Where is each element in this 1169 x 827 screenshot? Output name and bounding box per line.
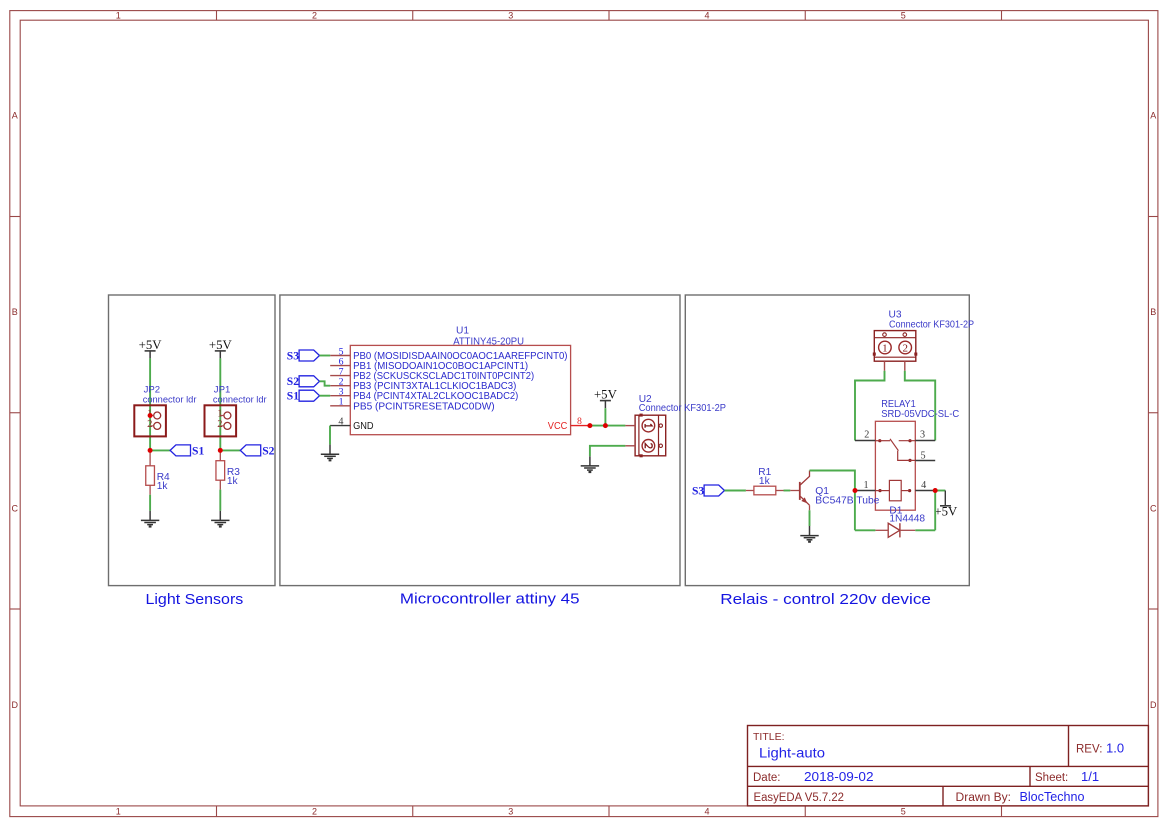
svg-text:+5V: +5V	[594, 387, 618, 401]
svg-text:Light-auto: Light-auto	[759, 745, 825, 761]
svg-text:connector ldr: connector ldr	[143, 394, 197, 404]
svg-text:Drawn By:: Drawn By:	[956, 792, 1012, 804]
svg-text:3: 3	[508, 11, 513, 21]
svg-text:Date:: Date:	[753, 772, 781, 784]
svg-text:1k: 1k	[759, 476, 771, 487]
svg-text:GND: GND	[353, 421, 374, 432]
svg-text:1: 1	[339, 397, 344, 408]
svg-text:S1: S1	[192, 445, 204, 458]
svg-text:1: 1	[116, 807, 121, 817]
svg-text:S1: S1	[287, 390, 299, 403]
svg-text:A: A	[12, 110, 18, 120]
svg-text:3: 3	[920, 430, 925, 441]
svg-text:3: 3	[508, 807, 513, 817]
svg-text:1: 1	[116, 11, 121, 21]
svg-text:SRD-05VDC-SL-C: SRD-05VDC-SL-C	[881, 409, 959, 420]
svg-text:1: 1	[882, 342, 888, 354]
svg-text:U1: U1	[456, 326, 469, 337]
svg-text:4: 4	[704, 11, 709, 21]
svg-text:1: 1	[217, 409, 222, 420]
svg-text:8: 8	[577, 416, 582, 427]
svg-text:1/1: 1/1	[1081, 769, 1099, 784]
svg-text:4: 4	[704, 807, 709, 817]
svg-text:1: 1	[863, 480, 868, 491]
svg-text:4: 4	[921, 480, 926, 491]
svg-text:TITLE:: TITLE:	[753, 731, 785, 743]
svg-text:1k: 1k	[227, 476, 239, 487]
svg-text:REV:: REV:	[1076, 744, 1102, 756]
svg-text:D: D	[1150, 700, 1157, 710]
svg-text:5: 5	[901, 807, 906, 817]
svg-text:BC547B Tube: BC547B Tube	[815, 496, 879, 507]
svg-text:B: B	[12, 307, 18, 317]
svg-text:EasyEDA V5.7.22: EasyEDA V5.7.22	[754, 792, 845, 804]
svg-text:4: 4	[338, 416, 343, 427]
svg-text:S3: S3	[692, 485, 704, 498]
svg-text:1k: 1k	[157, 481, 169, 492]
svg-text:S3: S3	[287, 349, 299, 362]
svg-text:VCC: VCC	[548, 421, 568, 432]
svg-text:Microcontroller attiny 45: Microcontroller attiny 45	[400, 592, 580, 608]
svg-text:D: D	[11, 700, 18, 710]
svg-text:1N4448: 1N4448	[889, 514, 925, 525]
svg-text:2: 2	[217, 419, 222, 430]
svg-text:BlocTechno: BlocTechno	[1020, 789, 1085, 804]
svg-text:ATTINY45-20PU: ATTINY45-20PU	[453, 336, 524, 347]
svg-text:S2: S2	[262, 445, 274, 458]
svg-text:2: 2	[312, 807, 317, 817]
svg-text:Light Sensors: Light Sensors	[145, 592, 243, 608]
svg-text:2: 2	[902, 342, 908, 354]
svg-text:2: 2	[147, 419, 152, 430]
svg-text:2018-09-02: 2018-09-02	[804, 769, 874, 784]
svg-text:2: 2	[864, 430, 869, 441]
svg-text:Sheet:: Sheet:	[1035, 772, 1068, 784]
svg-text:Connector KF301-2P: Connector KF301-2P	[639, 403, 726, 414]
svg-text:+5V: +5V	[934, 504, 958, 518]
svg-text:connector ldr: connector ldr	[213, 394, 267, 404]
svg-text:S2: S2	[287, 375, 299, 388]
svg-text:A: A	[1150, 110, 1156, 120]
svg-text:PB5 (PCINT5RESETADC0DW): PB5 (PCINT5RESETADC0DW)	[353, 401, 495, 412]
svg-text:2: 2	[312, 11, 317, 21]
svg-text:C: C	[1150, 503, 1157, 513]
svg-text:1.0: 1.0	[1106, 741, 1124, 756]
svg-text:Relais - control 220v device: Relais - control 220v device	[720, 592, 931, 608]
svg-text:C: C	[11, 503, 18, 513]
svg-text:5: 5	[901, 11, 906, 21]
svg-text:B: B	[1150, 307, 1156, 317]
svg-text:Connector KF301-2P: Connector KF301-2P	[889, 319, 974, 330]
svg-text:5: 5	[920, 450, 925, 461]
